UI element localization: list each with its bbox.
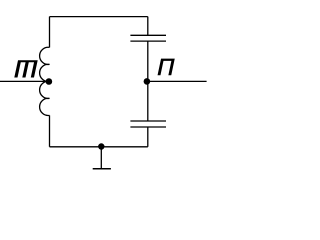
- junction dot at node n: [144, 78, 151, 85]
- capacitor C2 (bottom): [130, 121, 166, 127]
- inductor L1 (tapped coil, 4 loops): [40, 47, 50, 115]
- label n (cap node): [158, 59, 175, 76]
- ground stem: [100, 147, 102, 168]
- wire left vertical lower: [49, 115, 51, 146]
- wire top: from left branch to right branch: [50, 16, 148, 18]
- wire bottom: [50, 146, 148, 148]
- wire right vertical upper: [147, 17, 149, 36]
- ground bar: [93, 168, 111, 170]
- wire right vertical middle (C2 top plate through node n to C1 bottom plate): [147, 41, 149, 121]
- junction dot at ground node: [98, 143, 104, 149]
- wire right vertical lower (ground rail to C2): [147, 127, 149, 147]
- capacitor C1 (top): [130, 35, 166, 41]
- label m (tap): [14, 60, 37, 77]
- wire left terminal (to tap m): [0, 80, 49, 82]
- wire left vertical upper (to inductor): [49, 17, 51, 48]
- wire right terminal (from node n): [148, 80, 207, 82]
- junction dot at inductor tap: [46, 78, 53, 85]
